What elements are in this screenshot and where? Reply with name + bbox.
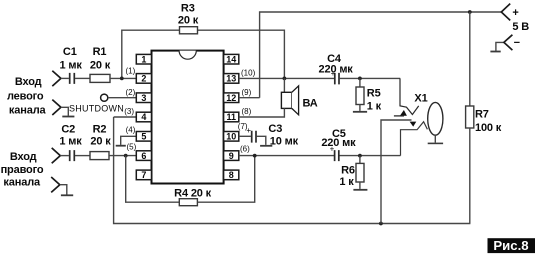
pin 8 box [224,170,239,180]
wire jack tip branch [400,78,419,114]
wire R7 vertical top [469,12,471,106]
capacitor C5 [335,150,339,161]
wire R7 vertical bottom [469,128,471,224]
svg-text:R6: R6 [341,165,355,177]
ground bar C3 [260,145,272,147]
capacitor C2 [70,150,75,161]
wire C2 to R2 [75,155,90,157]
wire jack sleeve arm to rail [381,120,412,224]
pin 14 box [224,54,239,64]
jack tip mate bar [394,115,404,117]
svg-text:4: 4 [141,112,146,122]
wire R5 top [359,78,361,87]
svg-text:100 к: 100 к [475,122,502,134]
svg-text:SHUTDOWN: SHUTDOWN [69,104,124,114]
svg-text:Вход: Вход [10,151,37,163]
pin 3 box [136,93,151,103]
svg-text:13: 13 [226,74,236,84]
wire shutdown to pin3 [108,97,137,99]
resistor R3 [180,27,198,34]
wire top +5V rail [260,12,502,98]
node junction dot C4/R5 [358,77,362,81]
capacitor C4 [335,73,339,85]
ground bar R6 [353,189,367,191]
ground bar input R [61,194,73,196]
resistor R1 [90,74,110,82]
svg-text:1: 1 [141,54,146,64]
svg-text:1 мк: 1 мк [59,60,82,72]
wire R2 to pin6 [109,155,136,157]
IC notch [179,51,196,60]
svg-text:8: 8 [229,170,234,180]
connector input left signal [52,71,61,86]
svg-text:С1: С1 [63,46,77,58]
svg-text:правого: правого [1,164,44,176]
resistor R6 [356,163,364,182]
wire input L to C1 [61,77,69,79]
connector SHUTDOWN circle [101,94,108,101]
svg-text:20 к: 20 к [90,136,111,148]
capacitor C1 [70,73,75,84]
speaker BA [281,92,291,108]
wire C3 to ground [257,136,266,145]
resistor R2 [90,152,109,160]
ground bar input L [62,116,74,118]
connector - terminal [504,35,513,50]
jack plug end bar [428,142,443,144]
svg-text:левого: левого [7,91,44,103]
wire R6 bottom [359,182,361,189]
svg-text:10: 10 [226,132,236,142]
pin 5 box [136,132,151,142]
svg-text:(8): (8) [242,107,252,116]
pin 13 box [224,74,239,84]
jack tip arrowhead [400,110,407,116]
svg-text:(6): (6) [240,144,250,153]
svg-text:(4): (4) [126,125,136,134]
svg-text:С3: С3 [268,123,282,135]
wire jack plug shaft [434,135,436,142]
svg-text:20 к: 20 к [178,15,199,27]
node junction dot C5/R6 [358,154,362,158]
svg-text:R3: R3 [181,2,195,14]
ground bar pin5 [116,145,126,147]
svg-text:1 к: 1 к [367,100,382,112]
svg-text:1 к: 1 к [339,176,354,188]
pin 11 box [224,112,239,122]
svg-text:+: + [512,7,518,19]
svg-text:R1: R1 [93,46,107,58]
svg-text:С2: С2 [61,124,75,136]
wire pin9 output row [239,155,401,157]
jack sleeve arrowhead [410,122,417,127]
svg-text:9: 9 [229,151,234,161]
svg-text:20 к: 20 к [90,60,111,72]
wire pin13 output row [239,77,400,79]
node junction dot R2/R4/pin6 [124,154,128,158]
wire input R common [60,185,67,195]
svg-text:3: 3 [141,93,146,103]
svg-text:(3): (3) [124,107,134,116]
pin 6 box [136,151,151,161]
wire R4 loop [126,156,255,203]
svg-text:11: 11 [226,112,236,122]
node junction dot jack-arm/rail [379,222,383,226]
wire R1 to pin2 [110,77,136,79]
connector input right signal [52,148,61,163]
pin 9 box [224,151,239,161]
connector + terminal [501,4,510,21]
wire R5 bottom [359,105,361,111]
svg-text:220 мк: 220 мк [321,137,356,149]
wire pin4 to ground rail [114,116,137,118]
svg-text:(9): (9) [242,88,252,97]
pin 12 box [224,93,239,103]
ground bar minus [490,51,500,53]
capacitor C3 [252,131,256,143]
jack plug ellipse [428,102,443,135]
wire input R to C2 [60,155,69,157]
connector input left common [52,100,61,115]
svg-text:(2): (2) [126,88,136,97]
pin 1 box [136,54,151,64]
svg-text:1 мк: 1 мк [59,136,82,148]
svg-text:6: 6 [141,151,146,161]
svg-text:(7): (7) [238,122,248,131]
wire bottom ground rail [114,117,471,224]
svg-text:5 В: 5 В [512,21,529,33]
svg-text:ВА: ВА [302,97,317,109]
figure label Рис.8 [488,238,535,253]
wire pin5 stub [121,136,137,145]
connector input right common [51,177,60,192]
resistor R7 [466,106,474,128]
svg-text:R5: R5 [367,88,381,100]
svg-text:Х1: Х1 [414,93,427,105]
svg-text:R4 20 к: R4 20 к [174,188,212,200]
svg-text:R7: R7 [475,108,489,120]
ground bar R5 [353,111,367,113]
pin 10 box [224,132,239,142]
svg-text:(1): (1) [126,67,136,76]
svg-text:14: 14 [226,54,236,64]
svg-text:канала: канала [3,177,41,189]
svg-text:канала: канала [9,105,47,117]
svg-text:(5): (5) [127,143,137,152]
pin 2 box [136,74,151,84]
wire speaker top [283,78,285,92]
svg-text:+: + [330,144,335,153]
wire R3 feedback [122,30,285,78]
node junction dot +5V/R7 [468,10,472,14]
svg-text:220 мк: 220 мк [319,63,354,75]
svg-text:5: 5 [141,132,146,142]
pin 4 box [136,112,151,122]
node junction dot speaker/R3 [283,77,287,81]
wire jack ring contact from C5 [401,122,428,156]
wire input L common [61,107,68,115]
resistor R5 [356,87,364,105]
node junction dot R4/pin9 [253,154,257,158]
svg-text:Рис.8: Рис.8 [493,238,528,253]
svg-text:2: 2 [141,74,146,84]
svg-text:10 мк: 10 мк [270,136,299,148]
svg-text:−: − [514,37,520,49]
resistor R4 [179,199,197,206]
svg-text:12: 12 [226,93,236,103]
wire pin10 to C3 [239,135,251,137]
wire R6 top [359,156,361,164]
svg-text:(10): (10) [241,68,256,77]
wire speaker bottom to pin11 [239,108,285,117]
IC U1 body [152,51,224,184]
wire C1 to R1 [75,77,90,79]
wire pin12 to +5V [239,97,260,99]
pin 7 box [136,170,151,180]
node junction dot R1/R3/pin2 [120,77,124,81]
svg-text:7: 7 [141,170,146,180]
svg-text:+: + [331,69,336,78]
wire minus terminal [496,42,504,51]
svg-text:R2: R2 [93,124,107,136]
svg-text:Вход: Вход [15,76,42,88]
